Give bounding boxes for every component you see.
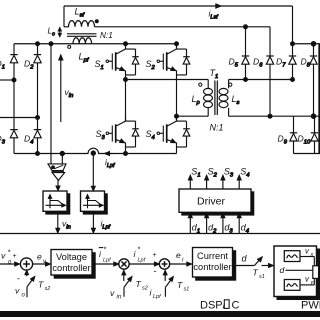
coupling arrow Lc bbox=[58, 28, 61, 37]
svg-text:Lp: Lp bbox=[192, 94, 201, 106]
label D10 bbox=[298, 134, 311, 146]
label T1 bbox=[210, 68, 219, 80]
coupled inductor core bbox=[67, 34, 97, 37]
svg-text:N:1: N:1 bbox=[100, 31, 113, 40]
summing junction voltage bbox=[20, 258, 32, 270]
phase dot secondary bbox=[229, 83, 232, 86]
wire iLpf sensor to filter bbox=[91, 154, 95, 191]
svg-text:S1: S1 bbox=[191, 167, 200, 179]
label D8 bbox=[301, 57, 311, 69]
svg-text:iLpf: iLpf bbox=[101, 219, 111, 231]
svg-text:Lpf: Lpf bbox=[79, 51, 90, 63]
svg-text:vin: vin bbox=[62, 219, 71, 231]
svg-text:D2: D2 bbox=[24, 59, 34, 71]
label vo feedback bbox=[15, 286, 26, 299]
label vin feedforward bbox=[110, 288, 122, 301]
svg-text:o: o bbox=[8, 260, 12, 266]
multiplier junction bbox=[119, 259, 129, 269]
svg-text:T: T bbox=[136, 279, 142, 289]
diode D1 bbox=[10, 44, 17, 80]
transformer T1 primary winding Lp bbox=[204, 80, 213, 117]
label D9 bbox=[278, 134, 288, 146]
wire S1-S3 leg bbox=[125, 80, 127, 122]
label d4 bbox=[241, 223, 249, 235]
wire output bottom rail bbox=[294, 153, 320, 155]
svg-text:s2: s2 bbox=[142, 286, 148, 292]
node D1-D3 junction bbox=[12, 78, 16, 82]
transistor S2 bbox=[157, 44, 190, 85]
svg-text:T: T bbox=[253, 268, 259, 278]
duty input d2 bbox=[205, 213, 209, 234]
node S1 collector rail bbox=[124, 42, 128, 46]
svg-text:C: C bbox=[232, 300, 240, 312]
svg-text:*: * bbox=[8, 248, 11, 257]
duty input d1 bbox=[188, 213, 192, 234]
svg-text:x: x bbox=[310, 252, 314, 258]
sampler Ts2 vo feedback bbox=[25, 270, 35, 297]
duty input d3 bbox=[221, 213, 225, 234]
label Lp bbox=[192, 94, 201, 106]
svg-text:d: d bbox=[242, 254, 248, 264]
gate signal S1 bbox=[188, 175, 192, 189]
node D6 anode junction bbox=[268, 114, 272, 118]
label d duty bbox=[242, 254, 248, 264]
label Lpf bbox=[79, 51, 90, 63]
label D6 bbox=[253, 57, 263, 69]
label D1 bbox=[0, 59, 5, 71]
svg-text:S2: S2 bbox=[208, 167, 218, 179]
diode D9 bbox=[290, 116, 297, 153]
svg-text:N:1: N:1 bbox=[210, 123, 224, 133]
label D4 bbox=[24, 134, 33, 146]
wire secondary bottom bbox=[229, 115, 320, 117]
inductor Lsf left terminal bbox=[63, 6, 65, 27]
label N:1 coupled inductor bbox=[100, 31, 113, 40]
svg-text:S1: S1 bbox=[95, 59, 104, 71]
carrier wave vy generator bbox=[284, 280, 300, 291]
bottom border bar bbox=[0, 312, 320, 317]
low-pass filter block vin bbox=[43, 191, 70, 214]
svg-text:e: e bbox=[176, 250, 181, 260]
svg-text:D1: D1 bbox=[0, 59, 5, 71]
carrier wave vx generator bbox=[284, 251, 300, 262]
diode D3 bbox=[10, 80, 17, 154]
wire output top rail bbox=[293, 43, 320, 45]
svg-text:S2: S2 bbox=[146, 59, 156, 71]
label iLpf* command bbox=[134, 245, 146, 264]
node vin sense tap bbox=[60, 151, 64, 155]
label ei bbox=[176, 250, 184, 264]
svg-text:Voltage: Voltage bbox=[56, 252, 87, 262]
label S2 gate bbox=[208, 167, 218, 179]
comparator block bbox=[313, 266, 319, 279]
sign plus summer1 bbox=[13, 253, 17, 260]
label Lc bbox=[48, 27, 56, 38]
arrow vin bbox=[59, 55, 63, 122]
label vo* reference bbox=[1, 248, 12, 266]
label D2 bbox=[24, 59, 34, 71]
gate signal S2 bbox=[205, 175, 209, 189]
label S1 bbox=[95, 59, 104, 71]
svg-text:D5: D5 bbox=[229, 57, 239, 69]
wire bottom rail bbox=[14, 148, 177, 153]
svg-text:Lsf: Lsf bbox=[75, 7, 86, 19]
duty input d4 bbox=[237, 213, 241, 234]
svg-text:Lpf: Lpf bbox=[138, 258, 146, 264]
node vin top rail tap bbox=[49, 42, 53, 46]
svg-text:T: T bbox=[177, 280, 183, 290]
low-pass filter block iLpf bbox=[81, 191, 108, 214]
wire vo* into summer bbox=[0, 262, 20, 266]
phase dot Lpf bbox=[68, 45, 71, 48]
arrow vin to DSP bbox=[56, 214, 60, 233]
wire output column cut at edge bbox=[318, 44, 320, 154]
arrow sensor to filter 1 bbox=[56, 180, 60, 190]
svg-text:iLsf: iLsf bbox=[209, 9, 219, 21]
node D4 bottom rail bbox=[36, 152, 40, 156]
svg-text:s1: s1 bbox=[184, 287, 190, 293]
label S3 gate bbox=[224, 167, 234, 179]
phase dot Lsf bbox=[95, 20, 98, 23]
label d1 bbox=[192, 223, 200, 235]
node D5 top bbox=[244, 25, 248, 29]
diode D6 bbox=[266, 27, 273, 116]
label iLpf sampled bbox=[101, 219, 111, 231]
transistor S3 bbox=[106, 116, 139, 154]
svg-text:D7: D7 bbox=[276, 57, 286, 69]
wire d from current controller bbox=[236, 265, 254, 267]
phase dot primary bbox=[199, 83, 202, 86]
label N:1 transformer bbox=[210, 123, 224, 133]
label vin bbox=[65, 87, 74, 99]
label D7 bbox=[276, 57, 286, 69]
node S2 collector rail bbox=[175, 42, 179, 46]
wire AC input lower bbox=[0, 117, 38, 119]
label Ts2 second bbox=[136, 279, 148, 292]
wire vx to comparator bbox=[300, 257, 314, 266]
svg-text:i: i bbox=[182, 258, 184, 264]
node D7 anode junction bbox=[291, 78, 295, 82]
driver block bbox=[179, 189, 254, 215]
svg-text:+: + bbox=[13, 253, 17, 260]
wire S2 emitter to S4 bbox=[176, 85, 178, 121]
label iLpf feedback bbox=[150, 288, 162, 301]
wire top rail vin+ bbox=[14, 43, 177, 45]
svg-text:i: i bbox=[99, 249, 102, 259]
wire vy to comparator bbox=[300, 278, 314, 285]
label d inside PWM bbox=[280, 265, 285, 275]
wire voltage ctrl to multiplier bbox=[92, 262, 119, 266]
label Ls bbox=[232, 94, 240, 106]
svg-text:v: v bbox=[15, 286, 20, 296]
svg-text:Lc: Lc bbox=[48, 27, 56, 38]
svg-text:s1: s1 bbox=[259, 274, 265, 280]
svg-text:D3: D3 bbox=[0, 134, 6, 146]
svg-text:Lpf: Lpf bbox=[153, 294, 161, 300]
wire vin+ sense line bbox=[50, 44, 52, 164]
svg-text:Lpf: Lpf bbox=[103, 258, 111, 264]
inductor Lsf winding bbox=[64, 21, 95, 27]
gate signal S4 bbox=[237, 175, 241, 189]
label D3 bbox=[0, 134, 6, 146]
svg-text:D6: D6 bbox=[253, 57, 263, 69]
svg-text:e: e bbox=[37, 252, 42, 262]
label Ts1 duty bbox=[253, 268, 265, 281]
svg-text:D4: D4 bbox=[24, 134, 33, 146]
svg-text:T: T bbox=[38, 280, 44, 290]
svg-text:controller: controller bbox=[52, 263, 90, 273]
svg-text:S3: S3 bbox=[224, 167, 234, 179]
diode D10 bbox=[311, 116, 318, 153]
svg-text:d4: d4 bbox=[241, 223, 249, 235]
svg-text:S4: S4 bbox=[240, 167, 249, 179]
PWM block bbox=[274, 246, 320, 300]
gate signal S3 bbox=[221, 175, 225, 189]
sampler Ts2 vin feedforward bbox=[122, 270, 132, 297]
voltage transducer vin bbox=[48, 164, 66, 171]
svg-text:d1: d1 bbox=[192, 223, 200, 235]
svg-text:-: - bbox=[154, 266, 157, 276]
label vin sampled bbox=[62, 219, 71, 231]
diode D7 bbox=[289, 44, 296, 80]
label d3 bbox=[224, 223, 233, 235]
transistor S1 bbox=[106, 44, 139, 80]
label DSP/uC bbox=[200, 300, 240, 312]
label iLpf* bar reference bbox=[99, 245, 111, 264]
svg-text:D9: D9 bbox=[278, 134, 288, 146]
sign minus summer1 bbox=[17, 274, 20, 284]
summing junction current bbox=[159, 259, 169, 269]
node output rail left bbox=[291, 42, 295, 46]
svg-text:d2: d2 bbox=[208, 223, 217, 235]
label ev bbox=[37, 252, 47, 266]
wire top loop iLsf (Lsf to output rectifier) bbox=[64, 5, 293, 7]
svg-text:o: o bbox=[22, 293, 26, 299]
svg-text:d3: d3 bbox=[224, 223, 233, 235]
diode D5 bbox=[242, 27, 249, 80]
label d2 bbox=[208, 223, 217, 235]
voltage sensor input taps bbox=[61, 154, 63, 164]
sign minus summer2 bbox=[154, 266, 157, 276]
wire AC input upper bbox=[0, 79, 14, 81]
label vy bbox=[305, 275, 315, 287]
label D5 bbox=[229, 57, 239, 69]
wire ei to current controller bbox=[170, 262, 192, 266]
node iLpf sensor bbox=[91, 151, 95, 155]
label S4 bbox=[146, 129, 155, 141]
label S3 bbox=[96, 129, 106, 141]
label PWM bbox=[301, 300, 320, 312]
svg-text:v: v bbox=[1, 251, 6, 261]
node S3 emitter rail bbox=[124, 152, 128, 156]
wire secondary top to D5/D7 anodes bbox=[229, 79, 293, 81]
svg-text:-: - bbox=[17, 274, 20, 284]
svg-text:+: + bbox=[153, 252, 157, 259]
node S2-S4 midpoint bbox=[175, 114, 179, 118]
svg-text:controller: controller bbox=[193, 262, 231, 272]
separator DSP boundary bbox=[0, 233, 320, 235]
node D2-D4 junction bbox=[36, 116, 40, 120]
wire d to comparator bbox=[286, 269, 313, 271]
svg-text:s2: s2 bbox=[45, 286, 51, 292]
label Ts2 first bbox=[38, 280, 50, 293]
svg-text:D8: D8 bbox=[301, 57, 311, 69]
label iLsf bbox=[209, 9, 219, 21]
label vx bbox=[305, 247, 314, 259]
current controller block bbox=[193, 248, 236, 281]
svg-text:Driver: Driver bbox=[197, 196, 226, 208]
svg-text:iLpf: iLpf bbox=[105, 158, 115, 169]
wire vertical right end of iLsf loop bbox=[292, 6, 294, 44]
label S4 gate bbox=[240, 167, 249, 179]
inductor Lpf winding bbox=[73, 38, 92, 44]
node S1-S3 midpoint bbox=[124, 78, 128, 82]
label Ts1 inner bbox=[177, 280, 189, 293]
transformer core bbox=[215, 81, 217, 116]
label Lsf bbox=[75, 7, 86, 19]
svg-text:i: i bbox=[134, 249, 137, 259]
arrow iLpf to DSP bbox=[91, 214, 95, 233]
voltage controller block bbox=[51, 250, 95, 279]
wire Lsf output to D5/D6 bbox=[95, 26, 271, 28]
svg-text:vin: vin bbox=[65, 87, 74, 99]
svg-text:d: d bbox=[280, 265, 285, 275]
wire d to PWM bbox=[262, 264, 274, 268]
diode D4 bbox=[34, 118, 41, 154]
node D8 anode junction bbox=[311, 114, 316, 119]
svg-text:*: * bbox=[138, 245, 141, 254]
label iLpf near sensor bbox=[105, 158, 115, 169]
svg-text:*: * bbox=[104, 245, 107, 254]
svg-text:in: in bbox=[117, 295, 122, 301]
sampler Ts1 duty bbox=[254, 257, 262, 266]
diode D2 bbox=[34, 44, 41, 118]
wire bridge out B to primary bbox=[177, 115, 209, 117]
svg-text:S3: S3 bbox=[96, 129, 106, 141]
label S1 gate bbox=[191, 167, 200, 179]
svg-text:DSP/: DSP/ bbox=[200, 300, 227, 312]
svg-text:Ls: Ls bbox=[232, 94, 240, 106]
voltage sensor buffer triangle bbox=[52, 171, 65, 180]
svg-text:PWM: PWM bbox=[301, 300, 320, 312]
svg-text:S4: S4 bbox=[146, 129, 155, 141]
arrow iLsf direction bbox=[216, 4, 221, 8]
sign plus summer2 bbox=[153, 252, 157, 259]
svg-text:v: v bbox=[110, 288, 115, 298]
wire bridge out A to primary bbox=[126, 79, 209, 81]
sampler Ts1 iLpf feedback bbox=[163, 270, 173, 297]
node D8 top bbox=[311, 41, 316, 46]
svg-text:D10: D10 bbox=[298, 134, 311, 146]
svg-text:Current: Current bbox=[197, 251, 228, 261]
transistor S4 bbox=[157, 116, 190, 154]
label S2 bbox=[146, 59, 156, 71]
diode D8 bbox=[310, 44, 317, 116]
arrow iLpf on rail bbox=[105, 152, 113, 156]
node D2 top rail bbox=[36, 42, 40, 46]
transformer T1 secondary winding Ls bbox=[219, 80, 229, 117]
svg-text:T1: T1 bbox=[210, 68, 219, 80]
wire multiplier to summer2 bbox=[129, 262, 159, 266]
wire ev to voltage controller bbox=[33, 262, 51, 266]
node D5 anode junction bbox=[244, 78, 248, 82]
